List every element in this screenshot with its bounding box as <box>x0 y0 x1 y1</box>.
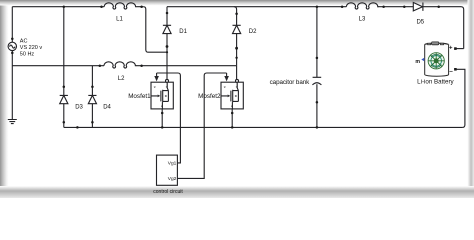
wire neutral rail (AC to L2 to node B) <box>12 65 236 67</box>
label D2 <box>249 29 257 35</box>
svg-text:D2: D2 <box>249 29 257 35</box>
wire AC source top lead <box>11 7 13 43</box>
svg-text:–: – <box>449 68 453 75</box>
label capacitor bank <box>270 79 311 86</box>
wire bottom rail (DC-) <box>64 126 463 128</box>
svg-text:D5: D5 <box>416 19 424 25</box>
wire gate Vg1 <box>157 73 181 163</box>
wire node B to Mosfet2 drain <box>236 66 238 80</box>
svg-text:50 Hz: 50 Hz <box>20 52 35 58</box>
label D3 <box>75 105 83 111</box>
wire gate Vg2 <box>177 73 226 178</box>
label Vg1 <box>168 160 177 166</box>
svg-text:L2: L2 <box>118 76 125 82</box>
battery positive wire <box>455 48 463 50</box>
diode D3 <box>60 95 68 103</box>
capacitor bank branch lower <box>316 84 318 127</box>
svg-text:Mosfet2: Mosfet2 <box>198 93 221 100</box>
label Li-ion Battery <box>417 79 454 86</box>
mosfet U2 port labels <box>224 84 238 108</box>
mosfet U2 symbol <box>221 83 238 109</box>
label D5 <box>416 19 424 25</box>
battery negative wire <box>455 69 465 127</box>
label Mosfet2 <box>198 93 221 100</box>
label L2 <box>118 76 125 82</box>
label AC <box>20 38 43 57</box>
wire D2 lower lead to node B <box>236 34 238 66</box>
svg-text:capacitor bank: capacitor bank <box>270 79 311 86</box>
svg-text:D1: D1 <box>179 29 187 35</box>
svg-text:m: m <box>415 59 420 65</box>
inductor L2 <box>104 62 136 68</box>
battery Li-ion <box>425 42 449 76</box>
svg-text:VS 220 v: VS 220 v <box>20 45 43 51</box>
label D4 <box>103 105 111 111</box>
mosfet U1 port labels <box>154 84 168 108</box>
svg-text:+: + <box>449 46 453 52</box>
svg-text:Li-ion Battery: Li-ion Battery <box>417 79 454 86</box>
inductor L3 <box>346 3 378 9</box>
label L1 <box>116 17 123 23</box>
AC source VS 220 v 50 Hz <box>8 42 16 50</box>
inductor L1 <box>104 3 136 9</box>
svg-text:L3: L3 <box>359 17 366 23</box>
label D1 <box>179 29 187 35</box>
svg-text:Vg2: Vg2 <box>168 176 177 182</box>
mosfet U2 gate arrow <box>224 73 229 81</box>
mosfet U1 gate arrow <box>154 73 159 81</box>
capacitor bank branch upper <box>316 7 318 78</box>
diode D5 <box>413 3 423 11</box>
wire D4 branch lower <box>91 104 93 128</box>
diode D2 <box>233 25 241 33</box>
wire D2 corner from rail <box>234 7 237 26</box>
wire L1 to node A (descent) <box>143 7 167 53</box>
label Vg2 <box>168 176 177 182</box>
wire Mosfet1 source lead <box>161 109 163 128</box>
diode D4 <box>88 95 96 103</box>
mosfet U2 block box <box>221 82 243 109</box>
control circuit block box <box>157 155 178 185</box>
svg-text:control circuit: control circuit <box>153 189 183 195</box>
svg-text:Mosfet1: Mosfet1 <box>128 93 151 100</box>
wire D1 lower lead to node A <box>166 34 168 53</box>
mosfet U1 block box <box>151 82 173 109</box>
svg-text:L1: L1 <box>116 17 123 23</box>
wire node A to Mosfet1 drain <box>166 52 168 79</box>
svg-text:Vg1: Vg1 <box>168 160 177 166</box>
mosfet U1 symbol <box>151 83 168 109</box>
wire Mosfet2 source lead <box>231 109 233 128</box>
svg-text:D3: D3 <box>75 105 83 111</box>
mosfet U1 drain port <box>166 79 169 82</box>
label battery minus <box>449 68 453 75</box>
label battery plus <box>449 46 453 52</box>
wire D4 branch upper <box>91 66 93 96</box>
label Mosfet1 <box>128 93 151 100</box>
wire AC source bottom lead <box>11 51 13 120</box>
wire D3 branch upper <box>63 7 65 96</box>
wire D1 upper lead <box>166 7 168 26</box>
label L3 <box>359 17 366 23</box>
battery green emblem <box>428 53 444 69</box>
wire top rail right (DC+ rail) <box>167 7 464 49</box>
wire D3 branch lower <box>63 104 65 128</box>
capacitor bank plates <box>312 77 321 85</box>
svg-text:AC: AC <box>20 38 28 44</box>
mosfet U2 drain port <box>236 79 239 82</box>
svg-text:D4: D4 <box>103 105 111 111</box>
label control circuit <box>153 189 183 195</box>
diode D1 <box>163 25 171 33</box>
battery m port marker <box>415 58 424 65</box>
wire top rail left (AC line to L1) <box>12 6 143 8</box>
ground <box>8 120 17 124</box>
